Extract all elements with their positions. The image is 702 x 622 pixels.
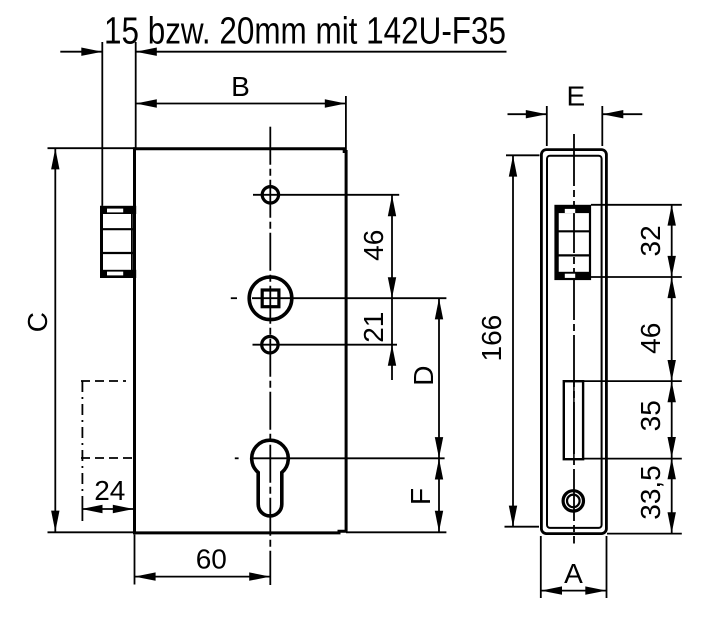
- svg-text:46: 46: [635, 323, 666, 354]
- svg-text:B: B: [231, 71, 250, 102]
- svg-text:33,5: 33,5: [635, 465, 666, 520]
- svg-text:21: 21: [358, 312, 389, 343]
- svg-text:35: 35: [635, 400, 666, 431]
- svg-text:A: A: [564, 558, 583, 589]
- svg-text:C: C: [22, 312, 53, 332]
- svg-text:46: 46: [358, 230, 389, 261]
- svg-text:32: 32: [635, 225, 666, 256]
- svg-text:D: D: [408, 365, 439, 385]
- svg-text:60: 60: [196, 544, 227, 575]
- svg-text:24: 24: [94, 475, 125, 506]
- svg-text:E: E: [567, 81, 586, 112]
- svg-text:166: 166: [476, 315, 507, 362]
- svg-text:15 bzw. 20mm mit 142U-F35: 15 bzw. 20mm mit 142U-F35: [104, 10, 506, 52]
- svg-text:F: F: [405, 488, 436, 505]
